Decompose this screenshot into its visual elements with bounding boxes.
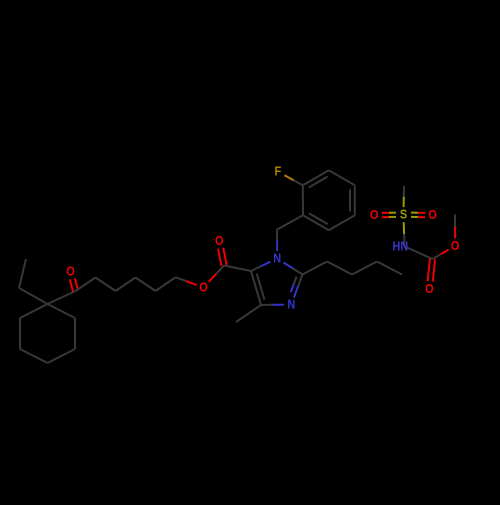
imidazole N1-C2 <box>284 263 294 269</box>
imidazole C2=N3 <box>298 275 302 287</box>
C-O <box>433 254 441 259</box>
wire <box>224 266 251 272</box>
svg-text:F: F <box>275 165 282 179</box>
C-F bond <box>294 180 303 185</box>
wire <box>327 262 352 275</box>
svg-text:O: O <box>215 234 224 248</box>
imidazole N1-C5 <box>251 266 261 271</box>
wire <box>19 288 48 304</box>
carbamate C=O <box>428 259 430 282</box>
svg-text:O: O <box>428 209 437 223</box>
wire <box>76 278 96 292</box>
wire <box>303 262 328 275</box>
methyl on C4 <box>236 305 261 322</box>
S=O right <box>411 216 418 218</box>
wire <box>116 278 136 292</box>
S=O left <box>389 212 396 214</box>
O-CH3 <box>454 227 456 239</box>
benzyl CH2 <box>276 240 278 251</box>
svg-text:N: N <box>287 298 295 312</box>
wire <box>352 262 377 275</box>
svg-text:O: O <box>451 239 460 253</box>
wire <box>48 291 76 304</box>
svg-text:S: S <box>400 208 407 222</box>
N-C <box>405 246 433 259</box>
wire <box>277 215 303 229</box>
svg-text:N: N <box>273 252 281 266</box>
svg-text:O: O <box>199 281 208 295</box>
svg-text:O: O <box>66 265 75 279</box>
cyclohexane ring <box>20 304 48 318</box>
wire <box>176 277 186 281</box>
fluorophenyl ring <box>303 170 329 185</box>
wire <box>209 274 217 282</box>
S-N <box>403 222 405 234</box>
svg-text:HN: HN <box>392 240 408 254</box>
wire <box>156 277 176 291</box>
wire <box>96 278 116 292</box>
wire <box>19 259 26 288</box>
wire <box>136 278 156 292</box>
S-CH3 <box>403 186 405 197</box>
imidazole C4=C5 <box>251 271 261 305</box>
svg-text:O: O <box>425 282 434 296</box>
ester C=O <box>223 248 226 265</box>
ketone C=O <box>75 278 78 290</box>
wire <box>377 262 402 275</box>
svg-text:O: O <box>370 209 379 223</box>
imidazole N3-C4 <box>272 304 283 306</box>
